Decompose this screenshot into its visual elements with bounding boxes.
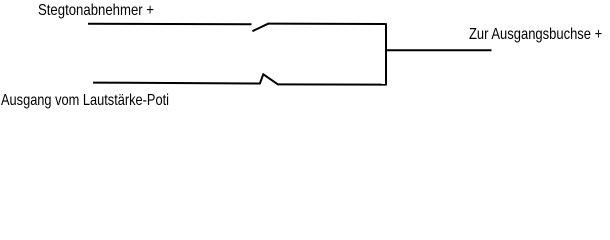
wire: output to Ausgangsbuchse	[386, 49, 492, 51]
wire: top from switch S1 to bus	[268, 23, 386, 25]
label: Stegtonabnehmer +	[38, 3, 154, 19]
switch S2 arm (closed, over-center)	[260, 74, 278, 84]
switch S1 arm (open)	[253, 24, 268, 31]
wire: bottom from Lautstärke-Poti to switch S2	[93, 82, 260, 85]
label: Zur Ausgangsbuchse +	[469, 27, 602, 43]
label: Ausgang vom Lautstärke-Poti	[1, 93, 169, 109]
node: vertical bus joining both wires	[385, 23, 387, 85]
wire: top from Stegtonabnehmer to switch S1	[88, 23, 252, 26]
wire: bottom from switch S2 to bus	[278, 83, 387, 85]
